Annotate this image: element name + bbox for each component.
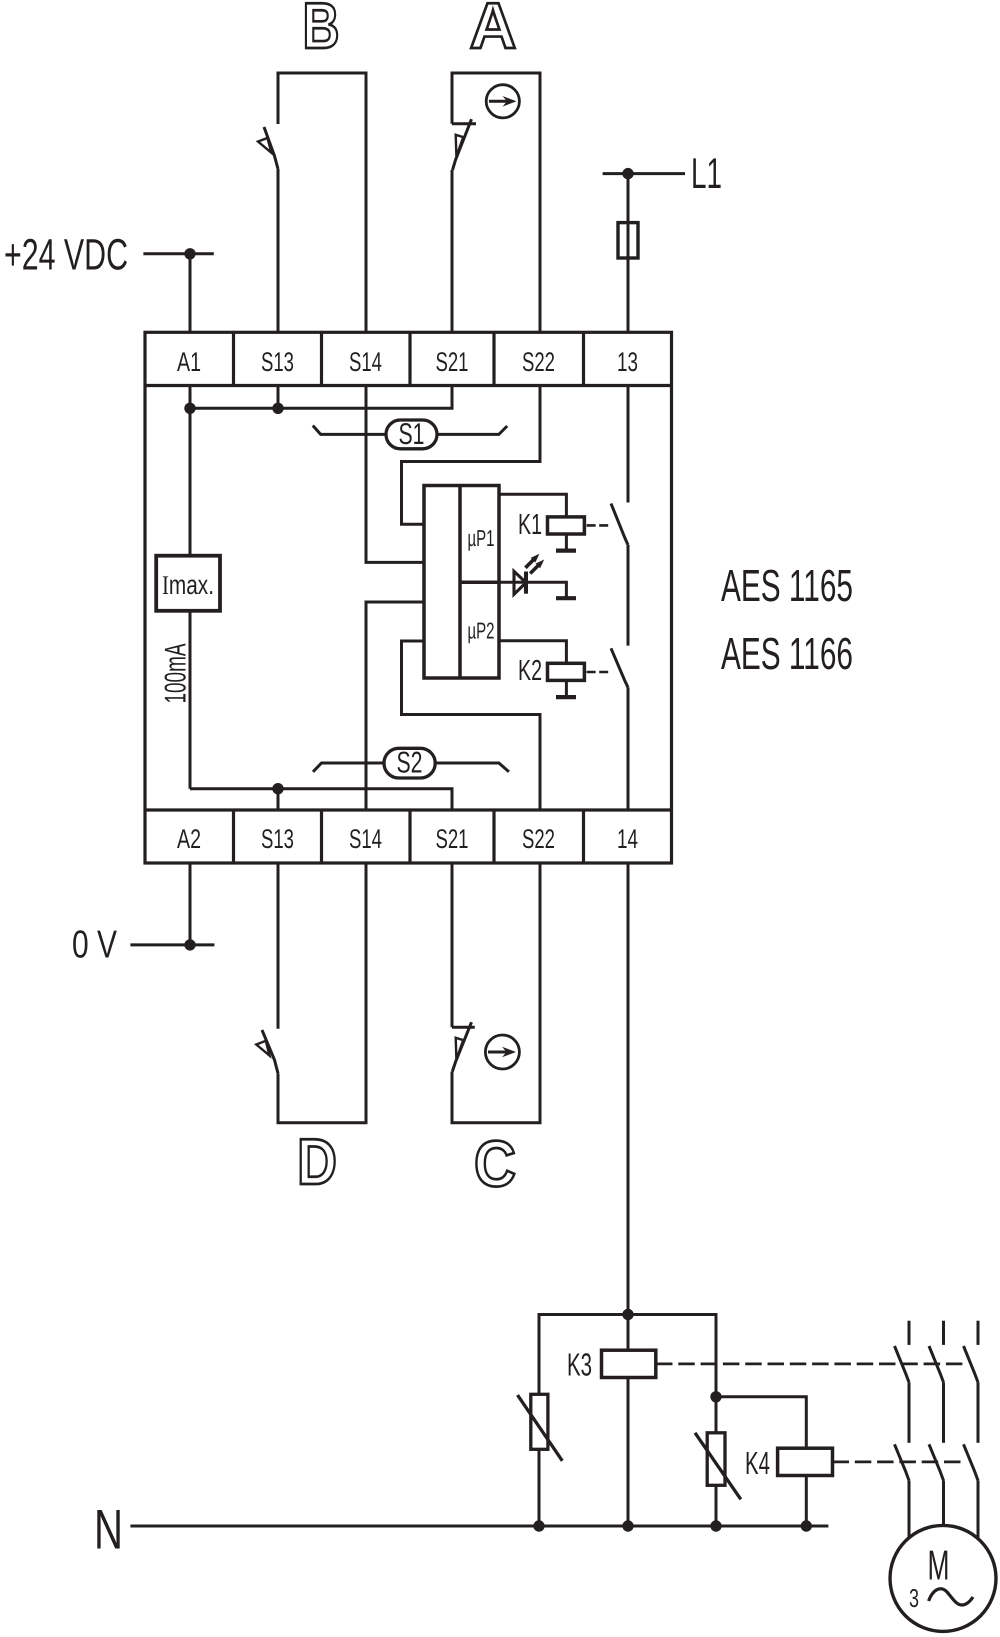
wire A1 to Imax xyxy=(189,386,192,556)
relay coil K4 xyxy=(778,1448,833,1475)
svg-text:13: 13 xyxy=(617,347,638,377)
svg-text:K3: K3 xyxy=(567,1347,592,1383)
actuator circle C xyxy=(485,1035,519,1069)
LED termination bar xyxy=(556,596,576,600)
wire to terminal A1 xyxy=(189,254,192,332)
K2 coil return xyxy=(565,680,568,695)
switch A fixed bar xyxy=(452,122,476,125)
LED arrows xyxy=(525,559,534,568)
svg-text:µP2: µP2 xyxy=(468,618,495,644)
S2 oval xyxy=(384,748,435,778)
svg-text:AES 1166: AES 1166 xyxy=(721,628,853,679)
relay coil K1 xyxy=(548,517,585,534)
node K3 top xyxy=(622,1309,633,1320)
node N Z2 xyxy=(710,1520,721,1531)
relay coil K2 xyxy=(548,663,585,680)
wire Z1 to N xyxy=(538,1449,541,1526)
varistor Z2 xyxy=(715,1397,718,1433)
channel D wire xyxy=(278,863,366,1123)
K1 termination bar xyxy=(556,548,576,552)
contact K3 phase 1 xyxy=(908,1321,911,1345)
contact K4 phase 2 xyxy=(929,1444,944,1480)
wire 14 down to N xyxy=(627,863,630,1526)
wire contact K2 to terminal 14 xyxy=(627,688,630,811)
node N K4 xyxy=(801,1520,812,1531)
contact K3 phase 3 xyxy=(977,1321,980,1345)
svg-text:µP1: µP1 xyxy=(468,525,495,551)
internal +24V bus xyxy=(190,386,452,409)
svg-text:S13: S13 xyxy=(261,347,294,377)
svg-text:S14: S14 xyxy=(349,347,382,377)
svg-text:0 V: 0 V xyxy=(72,924,117,967)
K1 coil return xyxy=(565,534,568,549)
wire uP to S22 bottom xyxy=(402,641,541,810)
LED diode xyxy=(514,571,526,594)
contact K3 phase 2 xyxy=(942,1321,945,1345)
K4 dashed actuation line xyxy=(833,1461,967,1464)
K2 termination bar xyxy=(556,695,576,699)
node K4 branch xyxy=(710,1391,721,1402)
wire uP to S14 bottom xyxy=(366,602,424,810)
svg-text:S1: S1 xyxy=(399,418,425,451)
wire S14 top to uP xyxy=(366,386,424,563)
wire switch B to terminal S13 xyxy=(277,169,280,332)
channel C wire xyxy=(452,863,540,1123)
switch B forced-opening triangle xyxy=(258,138,272,153)
K2 dashed link xyxy=(587,671,609,674)
switch C forced-opening triangle xyxy=(456,1038,464,1060)
svg-text:S13: S13 xyxy=(261,824,294,854)
bottom terminal row xyxy=(145,808,672,811)
L1 wire xyxy=(603,172,685,175)
motor tilde xyxy=(929,1589,973,1605)
K3 parallel branch top xyxy=(539,1315,716,1397)
svg-text:S2: S2 xyxy=(397,747,423,780)
contact K2 blade xyxy=(611,648,628,687)
uP divider horizontal xyxy=(460,580,499,584)
switch B (NC positive-break) blade xyxy=(264,127,278,169)
svg-text:K4: K4 xyxy=(745,1445,770,1481)
S1 oval xyxy=(386,420,437,449)
N wire xyxy=(130,1525,828,1528)
svg-text:D: D xyxy=(297,1125,337,1198)
svg-text:L1: L1 xyxy=(691,150,722,198)
node L1 xyxy=(622,168,633,179)
switch D forced-opening triangle xyxy=(256,1041,269,1056)
contact K4 phase 3 xyxy=(964,1444,979,1480)
K1 dashed link xyxy=(587,524,609,527)
node 0V xyxy=(184,939,195,950)
contact K4 phase 1 xyxy=(895,1444,910,1480)
wire A2 to 0V xyxy=(189,863,192,945)
relay coil K3 xyxy=(602,1350,656,1377)
svg-text:A: A xyxy=(470,0,517,62)
K3 dashed actuation line xyxy=(656,1363,966,1366)
switch A forced-opening triangle xyxy=(456,135,464,157)
svg-text:14: 14 xyxy=(617,824,638,854)
svg-text:100mA: 100mA xyxy=(159,644,192,704)
wire contact K1 to contact K2 xyxy=(627,545,630,646)
node +24VDC xyxy=(184,248,195,259)
svg-text:+24 VDC: +24 VDC xyxy=(4,231,128,280)
wire fuse to terminal 13 xyxy=(627,258,630,332)
svg-text:A2: A2 xyxy=(177,824,201,854)
wire uP1 to K1 coil xyxy=(499,494,566,517)
channel B wire xyxy=(278,73,366,332)
channel A wire xyxy=(452,73,540,332)
channel C wire left xyxy=(451,863,454,1027)
node S13 bus xyxy=(272,403,283,414)
wire L1 to fuse xyxy=(627,174,630,223)
stub S13 bottom xyxy=(277,789,280,810)
svg-text:M: M xyxy=(928,1542,950,1589)
LED wire xyxy=(499,582,566,596)
switch C blade xyxy=(452,1022,471,1071)
wire +24VDC xyxy=(143,252,213,255)
switch C fixed bar xyxy=(452,1026,475,1029)
wire switch A to terminal S21 xyxy=(451,170,454,332)
node A1 bus xyxy=(184,403,195,414)
stub S13 top xyxy=(277,386,280,409)
uP box xyxy=(424,486,499,679)
wire 13 to contact K1 xyxy=(627,386,630,503)
switch A blade xyxy=(453,119,472,170)
node N Z1 xyxy=(533,1520,544,1531)
varistor Z1 xyxy=(531,1394,548,1449)
svg-text:S22: S22 xyxy=(522,824,555,854)
wire K4 to N xyxy=(805,1476,808,1527)
S2 link right xyxy=(435,763,509,772)
channel D wire left xyxy=(277,863,280,1029)
module box AES xyxy=(145,332,672,863)
top terminal row xyxy=(145,384,672,387)
S1 link right xyxy=(437,426,507,434)
svg-text:A1: A1 xyxy=(177,347,201,377)
Imax current limiter box xyxy=(156,556,220,611)
svg-text:N: N xyxy=(94,1498,123,1561)
svg-text:K2: K2 xyxy=(518,655,542,687)
wire to K4 coil xyxy=(716,1397,806,1448)
internal 0V bus xyxy=(190,789,452,810)
svg-text:AES 1165: AES 1165 xyxy=(721,560,853,611)
actuator circle A xyxy=(486,85,519,118)
wire Imax to bottom bus xyxy=(189,611,192,789)
node S13 bottom bus xyxy=(272,783,283,794)
svg-text:B: B xyxy=(303,0,340,62)
uP divider vertical xyxy=(458,486,462,679)
svg-text:K1: K1 xyxy=(518,509,542,541)
svg-text:3: 3 xyxy=(909,1583,919,1613)
contact K1 blade xyxy=(611,504,628,546)
svg-text:Imax.: Imax. xyxy=(162,570,214,600)
wire S22 top to uP xyxy=(402,386,541,525)
switch D blade xyxy=(262,1030,278,1073)
fuse F1 xyxy=(618,223,638,258)
S1 link left xyxy=(313,426,386,435)
svg-text:S21: S21 xyxy=(436,347,469,377)
0V wire xyxy=(130,943,214,946)
wire uP2 to K2 coil xyxy=(499,641,566,664)
svg-text:S22: S22 xyxy=(522,347,555,377)
svg-text:C: C xyxy=(474,1127,516,1200)
svg-text:S14: S14 xyxy=(349,824,382,854)
motor M circle xyxy=(890,1525,996,1631)
S2 link left xyxy=(313,763,384,772)
node N 14 xyxy=(622,1520,633,1531)
svg-text:S21: S21 xyxy=(436,824,469,854)
